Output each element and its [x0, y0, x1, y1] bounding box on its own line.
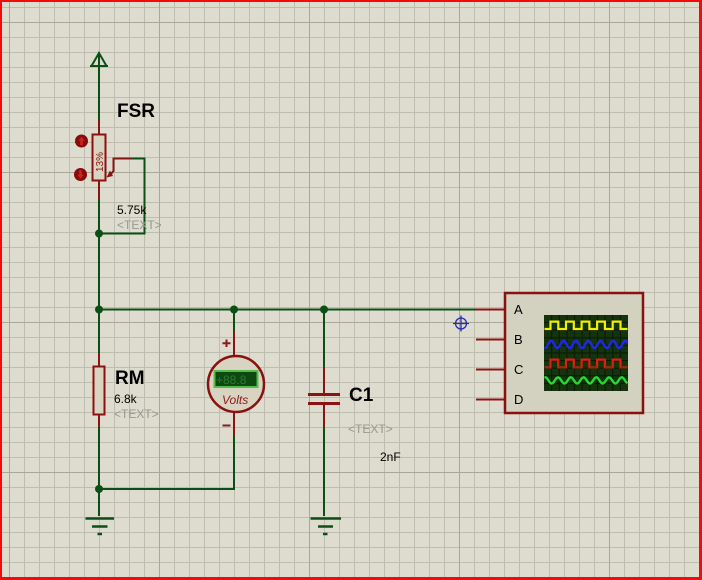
value 5.75k — [117, 203, 147, 217]
wire RM to ground node — [98, 428, 100, 489]
svg-text:B: B — [514, 332, 523, 347]
wire voltmeter bottom — [99, 436, 234, 489]
capacitor C1 — [308, 395, 340, 404]
svg-text:+88.8: +88.8 — [216, 373, 247, 387]
svg-text:6.8k: 6.8k — [114, 392, 138, 406]
label C1 — [349, 385, 374, 406]
trace A yellow — [545, 322, 628, 329]
scope screen — [544, 315, 628, 391]
wire main horizontal — [99, 309, 476, 311]
label FSR — [117, 101, 155, 122]
svg-text:5.75k: 5.75k — [117, 203, 147, 217]
svg-text:FSR: FSR — [117, 101, 155, 122]
wire wiper net — [99, 159, 145, 234]
pin voltmeter minus — [233, 411, 235, 436]
ground left — [86, 519, 115, 535]
voltmeter minus sign — [223, 425, 231, 427]
svg-text:13%: 13% — [95, 152, 106, 172]
voltmeter body — [208, 356, 264, 412]
pot up button — [75, 135, 88, 148]
pin RM bottom — [98, 414, 100, 428]
node junction wiper — [95, 230, 103, 238]
potentiometer FSR — [93, 135, 107, 181]
pin scope A — [476, 309, 505, 311]
pin pot top — [98, 119, 100, 135]
wire voltmeter top — [233, 310, 235, 333]
origin marker — [453, 316, 469, 332]
power terminal — [90, 53, 108, 66]
pin scope B — [476, 339, 505, 341]
scope label B — [514, 332, 523, 347]
svg-text:Volts: Volts — [222, 393, 248, 407]
trace D green — [545, 377, 628, 383]
svg-text:<TEXT>: <TEXT> — [114, 407, 159, 421]
pin voltmeter plus — [233, 332, 235, 357]
node junction voltmeter top — [230, 306, 238, 314]
voltmeter plus sign — [223, 340, 231, 348]
value 2nF — [380, 450, 401, 464]
pin capacitor bottom — [323, 405, 325, 428]
scope label C — [514, 362, 523, 377]
label RM — [115, 368, 145, 389]
wire capacitor bottom — [323, 428, 325, 516]
trace B blue — [545, 341, 628, 348]
value 6.8k — [114, 392, 138, 406]
svg-text:2nF: 2nF — [380, 450, 401, 464]
svg-text:C1: C1 — [349, 385, 374, 406]
svg-text:<TEXT>: <TEXT> — [117, 218, 162, 232]
pin pot bottom — [98, 179, 100, 200]
scope label D — [514, 392, 523, 407]
scope label A — [514, 302, 523, 317]
pot down button — [74, 168, 87, 181]
pin scope C — [476, 369, 505, 371]
node junction capacitor top — [320, 306, 328, 314]
ground right — [311, 519, 342, 535]
trace C red — [545, 360, 628, 368]
wire RM column — [98, 310, 100, 354]
text placeholder FSR — [117, 218, 162, 232]
text placeholder C1 — [348, 422, 393, 436]
svg-text:C: C — [514, 362, 523, 377]
pin scope D — [476, 399, 505, 401]
wire to ground left — [98, 489, 100, 516]
pot wiper — [107, 158, 132, 178]
svg-text:A: A — [514, 302, 523, 317]
svg-text:<TEXT>: <TEXT> — [348, 422, 393, 436]
node junction ground-left — [95, 485, 103, 493]
pin capacitor top — [323, 367, 325, 393]
wire pot to node A column — [98, 200, 100, 310]
wire capacitor top — [323, 310, 325, 368]
oscilloscope body — [505, 293, 643, 413]
pin RM top — [98, 353, 100, 367]
text placeholder RM — [114, 407, 159, 421]
node junction main-left — [95, 306, 103, 314]
wire power to pot — [98, 54, 100, 119]
svg-text:D: D — [514, 392, 523, 407]
resistor RM — [94, 367, 105, 415]
svg-text:RM: RM — [115, 368, 145, 389]
